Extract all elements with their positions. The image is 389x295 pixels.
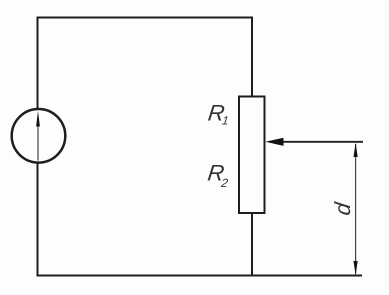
svg-text:d: d — [330, 201, 355, 217]
svg-text:1: 1 — [221, 114, 229, 128]
